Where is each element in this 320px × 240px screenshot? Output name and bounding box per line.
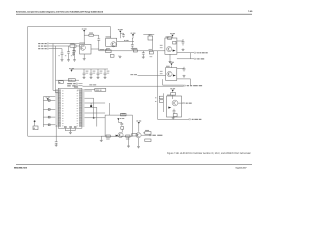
svg-text:7-45: 7-45	[248, 10, 253, 13]
svg-text:Schematics, Component Location: Schematics, Component Location Diagrams,…	[16, 10, 104, 13]
svg-text:6881096C74-B: 6881096C74-B	[14, 166, 28, 169]
svg-text:August 16, 2007: August 16, 2007	[235, 167, 247, 170]
svg-text:Figure 7-88. HUD4022A Controll: Figure 7-88. HUD4022A Controller Section…	[167, 152, 252, 155]
